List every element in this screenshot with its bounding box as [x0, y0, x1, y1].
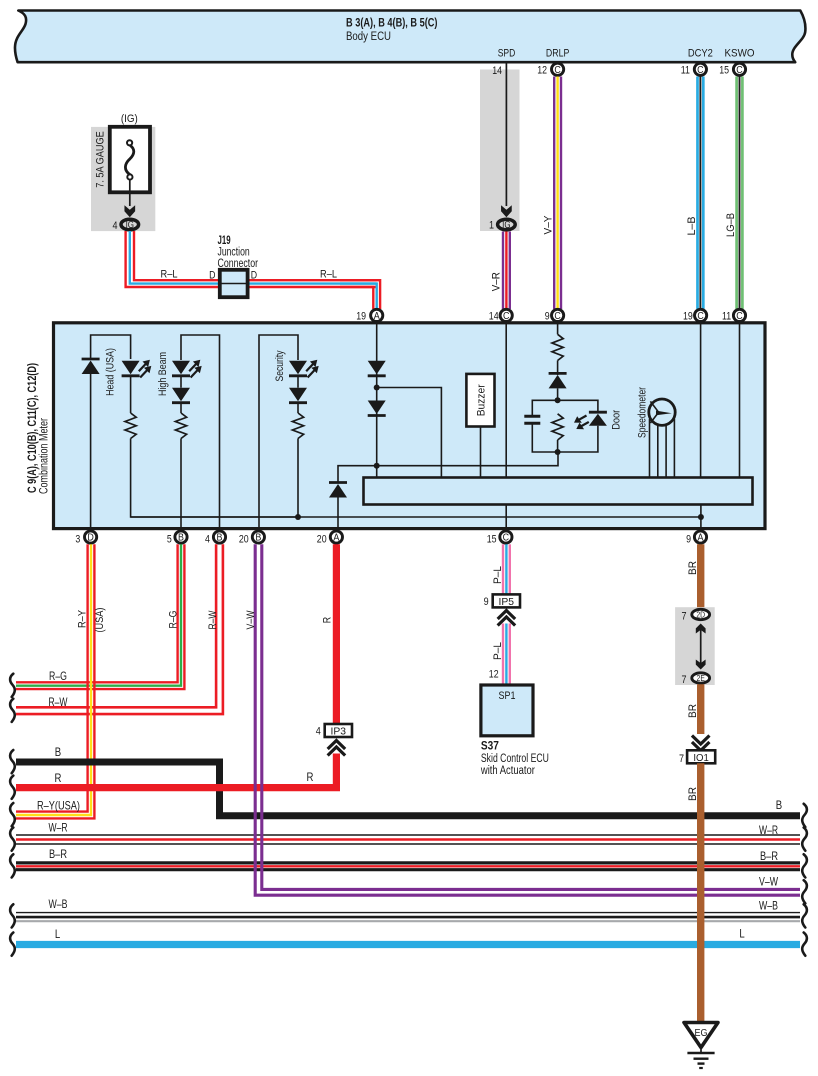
svg-text:D: D [209, 270, 215, 282]
pin 9 (A) meter bottom [694, 531, 706, 543]
svg-text:Body ECU: Body ECU [346, 31, 391, 43]
wire 14(C) to 15(C) vertical [505, 322, 507, 478]
svg-text:R–G: R–G [49, 669, 67, 683]
resistor door top [552, 334, 563, 360]
svg-text:7: 7 [681, 674, 686, 686]
svg-text:B: B [776, 799, 782, 812]
wire L-B (blue-black-blue) DCY2 to 19(C) [696, 77, 699, 310]
connector 11 (C) DCY2 [694, 63, 706, 75]
svg-text:2D: 2D [696, 610, 705, 620]
svg-text:BR: BR [687, 561, 699, 575]
svg-text:Security: Security [274, 350, 286, 381]
wire B (black) [16, 762, 800, 816]
svg-text:R: R [55, 772, 62, 785]
svg-text:P–L: P–L [492, 642, 504, 660]
svg-text:Head (USA): Head (USA) [104, 348, 116, 396]
Body ECU band (B 3(A), B 4(B), B 5(C)) [15, 11, 805, 63]
svg-text:R–L: R–L [320, 269, 337, 281]
svg-text:20: 20 [317, 534, 327, 546]
wire 19(A) branch vertical [376, 322, 378, 478]
svg-text:19: 19 [356, 311, 366, 323]
svg-text:D: D [251, 270, 257, 282]
svg-text:C: C [503, 310, 509, 322]
wire group2 top rail (high beam) [181, 335, 220, 527]
diode door (points up) [549, 375, 567, 389]
svg-text:7: 7 [681, 611, 686, 623]
combination meter box C9(A) C10(B) C11(C) C12(D) [54, 323, 766, 529]
connector 9 IP5 [493, 594, 520, 607]
wire group3 top rail (security) [259, 335, 298, 527]
svg-text:B–R: B–R [49, 847, 67, 861]
svg-text:LG–B: LG–B [725, 213, 737, 237]
connector 7 IO1 [687, 750, 715, 763]
svg-text:C: C [503, 532, 509, 544]
wire cross link [338, 452, 558, 483]
svg-text:R–L: R–L [161, 269, 178, 281]
svg-text:D: D [87, 532, 93, 544]
svg-text:V–W: V–W [245, 610, 257, 629]
svg-text:W–B: W–B [759, 899, 778, 913]
svg-text:B: B [217, 532, 223, 544]
svg-text:5: 5 [167, 534, 172, 546]
svg-text:C: C [554, 64, 560, 76]
svg-text:L–B: L–B [686, 217, 698, 236]
pin 15 (C) meter bottom [500, 531, 512, 543]
wire 9(C) door branch [557, 322, 559, 334]
connector 7 (2E) [692, 673, 710, 683]
svg-text:11: 11 [681, 65, 690, 77]
wire LG-B (green-black-green) KSWO to 11(C) [735, 77, 738, 310]
resistor security [292, 413, 303, 439]
double arrow 2D-2E [700, 628, 702, 665]
junction door bottom rail [555, 449, 561, 455]
wire R-W from 4(B) [16, 544, 216, 707]
diode 19(A) second [368, 401, 386, 415]
svg-text:B: B [178, 532, 184, 544]
svg-text:Door: Door [611, 410, 623, 430]
wire B-R (black-red) [16, 861, 800, 864]
svg-text:R: R [307, 771, 314, 784]
svg-text:L: L [739, 928, 744, 941]
svg-text:IG: IG [126, 219, 134, 230]
SPD gray panel [480, 70, 520, 232]
svg-text:15: 15 [719, 65, 729, 77]
pin 20 (B) meter bottom [252, 531, 264, 543]
svg-text:A: A [698, 532, 704, 544]
svg-text:DRLP: DRLP [546, 48, 570, 60]
svg-text:7. 5A GAUGE: 7. 5A GAUGE [95, 131, 107, 188]
pin 19 (C) meter top [695, 309, 707, 321]
svg-text:J19: J19 [218, 235, 231, 247]
svg-text:SPD: SPD [498, 48, 516, 60]
svg-text:W–R: W–R [759, 823, 778, 837]
svg-text:9: 9 [545, 311, 550, 323]
svg-text:14: 14 [489, 311, 499, 323]
svg-text:9: 9 [484, 596, 489, 608]
svg-text:BR: BR [687, 787, 699, 801]
svg-text:V–W: V–W [759, 875, 778, 889]
svg-text:S37: S37 [481, 741, 499, 753]
diode security second [289, 388, 307, 402]
wire R (red) from 20(A) [333, 544, 340, 725]
pin 14 (C) meter top [500, 309, 512, 321]
svg-text:V–R: V–R [491, 272, 503, 291]
chevron IP5 [498, 611, 516, 620]
diode 19(A) first [368, 361, 386, 375]
wire head branch to bottom rail [131, 439, 298, 518]
wire BR middle [697, 684, 704, 734]
svg-text:W–R: W–R [49, 821, 68, 835]
LED High Beam [172, 361, 190, 375]
svg-text:Speedometer: Speedometer [637, 387, 649, 438]
svg-text:IG: IG [502, 219, 510, 230]
svg-text:11: 11 [722, 311, 731, 323]
svg-text:B: B [255, 532, 261, 544]
wire 19(C) vertical [700, 322, 702, 478]
junction connector J19 box [220, 270, 248, 297]
svg-text:EG: EG [695, 1027, 708, 1039]
wire fuse to IG connector [129, 180, 131, 206]
pin 3 (D) meter bottom [85, 531, 97, 543]
pin 11 (C) meter top [733, 309, 745, 321]
svg-text:C 9(A), C10(B), C11(C), C12(D): C 9(A), C10(B), C11(C), C12(D) [27, 363, 39, 493]
buzzer box [466, 374, 494, 427]
wire R-L (red-blue-red) fuse IG to J19 to 19(A) [126, 231, 377, 287]
fuse element symbol [127, 140, 132, 145]
svg-text:1: 1 [489, 220, 494, 232]
svg-text:SP1: SP1 [499, 690, 516, 702]
pin 5 (B) meter bottom [175, 531, 187, 543]
wire R-Y(USA) from 3(D) [16, 544, 88, 811]
svg-text:15: 15 [487, 534, 497, 546]
svg-text:B 3(A), B 4(B), B 5(C): B 3(A), B 4(B), B 5(C) [346, 18, 438, 30]
speedometer leads [649, 419, 651, 478]
diode D-pin branch (points up) [82, 361, 100, 375]
LED Door (points up) [589, 414, 607, 426]
diode above 20(A) (points up) [329, 484, 347, 498]
wire V-W (violet-white) from 20(B) [255, 544, 800, 895]
svg-text:9: 9 [686, 534, 691, 546]
svg-text:C: C [736, 64, 742, 76]
svg-text:(USA): (USA) [94, 608, 106, 633]
chevron IO1 [692, 736, 710, 745]
svg-text:R–Y: R–Y [77, 609, 89, 628]
diode high beam second [172, 388, 190, 402]
chevron IP3 [328, 741, 346, 750]
svg-text:3: 3 [75, 534, 80, 546]
wire R-G from 5(B) [16, 544, 178, 682]
svg-text:R–W: R–W [49, 695, 68, 709]
svg-text:R: R [322, 617, 334, 623]
connector 4 (IG) at fuse [121, 219, 139, 230]
svg-text:IO1: IO1 [693, 752, 709, 764]
wire R lower [16, 754, 336, 788]
ground hatch [700, 1048, 702, 1054]
svg-text:P–L: P–L [492, 566, 504, 584]
svg-text:W–B: W–B [49, 897, 68, 911]
fuse box [110, 127, 150, 193]
junction door top rail [555, 397, 561, 403]
svg-text:14: 14 [492, 65, 502, 77]
junction security to bottom rail [295, 514, 301, 520]
svg-text:12: 12 [537, 65, 547, 77]
wire W-R (white-red) [16, 834, 800, 836]
svg-text:Skid Control ECU: Skid Control ECU [481, 753, 549, 765]
pin 9 (C) meter top [552, 309, 564, 321]
arrow into IG [124, 205, 135, 217]
resistor high beam [175, 413, 186, 439]
wire V-Y (violet-yellow-violet) DRLP to 9(C) [553, 77, 555, 310]
wire group1 top rail [91, 335, 131, 359]
connector 12 (C) DRLP [552, 63, 564, 75]
wire P-L upper from 15(C) [502, 544, 504, 594]
LED Head (USA) [122, 361, 140, 375]
wire 11(C) vertical [739, 322, 741, 478]
LED Security [289, 361, 307, 375]
connector 7 (2D) [692, 609, 710, 619]
junction 19(A) lower [374, 463, 380, 469]
svg-text:4: 4 [205, 534, 210, 546]
resistor door middle [552, 414, 563, 440]
svg-text:R–Y(USA): R–Y(USA) [37, 799, 80, 813]
svg-text:Combination Meter: Combination Meter [39, 418, 51, 494]
svg-text:C: C [697, 310, 703, 322]
junction 19(A)-branch tap [374, 385, 380, 391]
svg-text:DCY2: DCY2 [688, 48, 713, 60]
svg-text:Buzzer: Buzzer [475, 384, 487, 416]
svg-text:BR: BR [687, 704, 699, 718]
pin 4 (B) meter bottom [213, 531, 225, 543]
wire door parallel rails [532, 400, 598, 416]
connector 15 (C) KSWO [733, 63, 745, 75]
wire SPD to IG [505, 64, 507, 207]
capacitor door [524, 415, 540, 418]
svg-text:with Actuator: with Actuator [480, 765, 535, 777]
svg-text:C: C [736, 310, 742, 322]
speedometer gauge [649, 399, 675, 425]
wire tap to bus bar [377, 388, 442, 478]
svg-text:4: 4 [316, 726, 321, 738]
wire L (blue) [16, 941, 800, 948]
internal bus bar [364, 478, 753, 505]
svg-text:Junction: Junction [218, 247, 250, 259]
svg-text:4: 4 [112, 220, 117, 232]
svg-text:19: 19 [683, 311, 693, 323]
connector 1 (IG) SPD [498, 219, 516, 230]
svg-text:V–Y: V–Y [543, 215, 555, 235]
wire P-L lower [502, 624, 504, 686]
pin 20 (A) meter bottom [330, 531, 342, 543]
wire V-R (violet-red-violet) IG to 14(C) [502, 232, 504, 310]
ground EG triangle [684, 1023, 718, 1048]
svg-text:20: 20 [239, 534, 249, 546]
svg-text:(IG): (IG) [121, 113, 138, 125]
wire buzzer to bus bar [480, 427, 482, 478]
svg-text:L: L [55, 928, 60, 941]
svg-text:C: C [554, 310, 560, 322]
junction bottom rail to 9(A) [698, 514, 704, 520]
svg-text:C: C [697, 64, 703, 76]
svg-text:A: A [374, 310, 380, 322]
wire BR lower [697, 763, 704, 1021]
arrow into IG (SPD) [501, 205, 512, 217]
wire BR upper from 9(A) [697, 544, 704, 608]
resistor head branch [125, 413, 136, 439]
skid control ECU SP1 box [481, 685, 533, 736]
svg-text:B: B [55, 746, 61, 759]
svg-text:7: 7 [679, 753, 684, 765]
connector 4 IP3 [325, 724, 352, 737]
svg-text:B–R: B–R [760, 849, 778, 863]
wire bar to 9(A) [700, 505, 702, 528]
svg-text:High Beam: High Beam [157, 352, 169, 396]
svg-text:12: 12 [489, 668, 499, 680]
svg-text:A: A [333, 532, 339, 544]
pin 19 (A) meter top [371, 309, 383, 321]
svg-text:R–G: R–G [168, 611, 180, 629]
svg-text:KSWO: KSWO [725, 48, 755, 60]
fuse 7.5A GAUGE gray panel [91, 127, 155, 231]
wire internal bottom rail [131, 516, 701, 518]
wire W-B (white-black) [16, 912, 800, 914]
gray panel 2D/2E [675, 607, 715, 685]
svg-text:IP5: IP5 [499, 596, 515, 608]
svg-text:R–W: R–W [207, 610, 219, 629]
svg-text:IP3: IP3 [331, 726, 347, 738]
svg-text:2E: 2E [697, 673, 705, 683]
